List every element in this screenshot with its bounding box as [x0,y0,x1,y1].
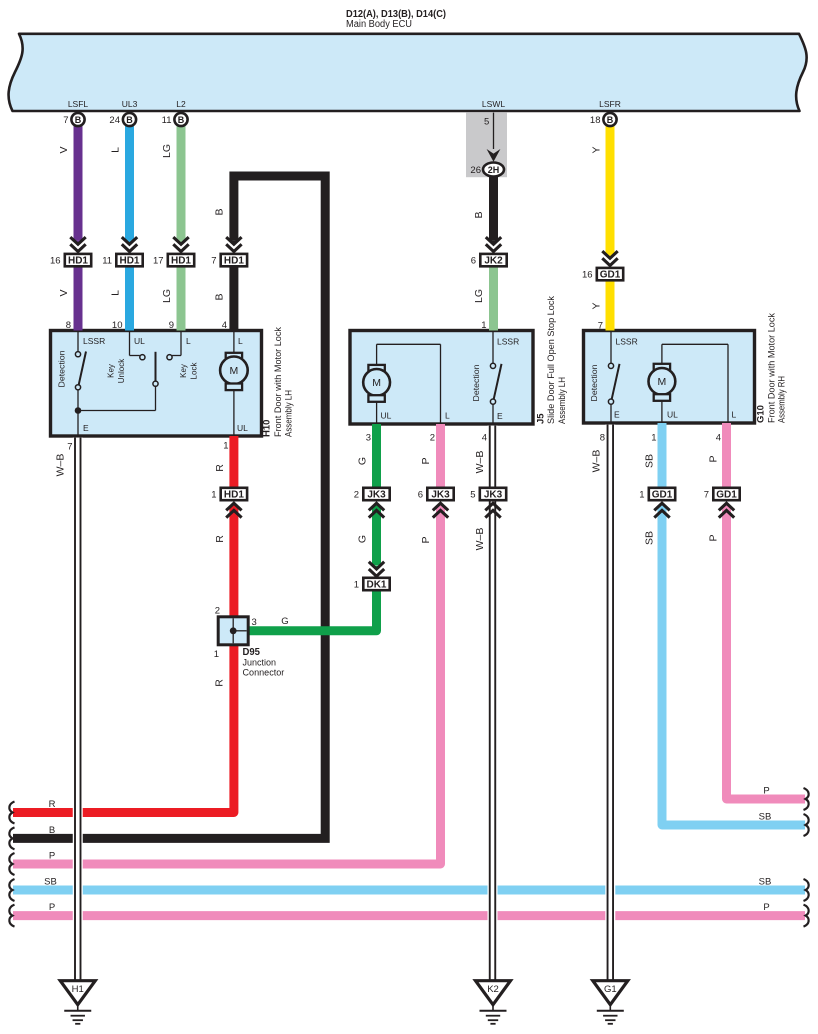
svg-text:7: 7 [63,115,68,126]
ground H1 [60,981,95,1005]
connector HD1 pin11 [116,254,142,266]
svg-text:11: 11 [162,115,172,126]
pin 24 (B) of D12 [123,113,136,126]
svg-text:HD1: HD1 [171,256,191,267]
svg-text:Slide Door Full Open Stop Lock: Slide Door Full Open Stop Lock [546,296,556,424]
svg-text:Assembly LH: Assembly LH [284,390,294,437]
cut mark P right [804,788,809,810]
svg-text:2: 2 [354,489,359,500]
svg-text:7: 7 [211,256,216,267]
svg-text:R: R [214,535,226,543]
module J5 box [350,331,533,425]
arrow into GD1 pin7 [719,503,734,510]
G10 motor M [661,344,663,364]
svg-text:GD1: GD1 [652,490,673,501]
svg-text:W–B: W–B [591,450,603,473]
wire L HD1 to H10 pin10 [125,266,134,330]
LSWL pin 5 lead [493,113,495,149]
svg-text:B: B [473,211,485,218]
svg-text:B: B [214,293,226,300]
svg-text:Detection: Detection [58,351,67,388]
connector DK1 pin1 [363,578,389,590]
svg-text:7: 7 [598,321,603,332]
cut mark SB left [9,879,14,901]
svg-text:JK3: JK3 [367,490,386,501]
svg-text:Key: Key [179,364,188,378]
svg-text:P: P [708,455,720,462]
svg-text:M: M [230,365,239,377]
svg-text:5: 5 [484,117,489,128]
svg-text:UL: UL [381,411,392,421]
svg-text:9: 9 [169,320,174,331]
connector 2H pin26 [483,163,504,177]
cut mark P bus right [804,905,809,927]
svg-text:R: R [49,799,56,810]
svg-text:SB: SB [759,877,772,888]
svg-text:P: P [708,534,720,541]
wire B 2H to JK2 [489,177,498,241]
svg-text:LG: LG [161,289,173,303]
svg-text:JK2: JK2 [484,256,503,267]
arrow into JK3 pin6 [433,503,448,510]
H10 wire dot to E [77,411,79,437]
svg-text:17: 17 [153,256,164,267]
svg-text:P: P [420,457,432,464]
J5 motor top link [377,343,441,345]
svg-text:L: L [186,336,191,346]
svg-text:G: G [281,616,288,627]
wire Y LSFR to GD1 [606,126,615,255]
G10 motor top link [662,343,728,345]
svg-text:L: L [238,336,243,346]
svg-text:SB: SB [644,531,656,545]
svg-text:10: 10 [112,320,123,331]
svg-text:Assembly RH: Assembly RH [777,376,787,423]
svg-text:GD1: GD1 [600,270,621,281]
svg-text:HD1: HD1 [224,490,244,501]
svg-text:P: P [49,902,55,913]
pin 11 (B) of D12 [174,113,187,126]
svg-text:L: L [110,147,122,153]
J5 motor M [376,344,378,365]
connector HD1 pin17 [168,254,194,266]
wire W-B G10 pinE to ground G1 [605,425,615,981]
H10 detection switch [77,332,79,352]
J5 motor to UL pin [376,402,378,424]
svg-text:G: G [357,535,369,543]
pin 7 (B) of D12 [71,113,84,126]
svg-text:7: 7 [704,489,709,500]
svg-text:Y: Y [591,302,603,309]
H10 motor M [233,332,235,353]
arrow into JK2 pin6 [486,237,501,244]
svg-text:P: P [420,536,432,543]
J5 detection switch [492,332,494,363]
svg-text:8: 8 [66,320,71,331]
gray shaded region at LSWL [466,112,507,177]
svg-text:Lock: Lock [190,362,199,380]
svg-text:UL3: UL3 [122,99,138,109]
svg-text:B: B [49,825,55,836]
svg-text:Front Door with Motor Lock: Front Door with Motor Lock [273,327,283,437]
svg-text:1: 1 [639,489,644,500]
svg-text:1: 1 [354,579,359,590]
svg-text:16: 16 [582,270,593,281]
ground K2 [476,981,511,1005]
svg-text:W–B: W–B [55,454,67,477]
svg-text:6: 6 [418,489,423,500]
svg-text:1: 1 [223,441,228,452]
wire B loop from HD1 pin7 [13,176,325,838]
H10 junction dot [75,407,82,414]
svg-text:8: 8 [600,433,605,444]
svg-text:P: P [763,786,769,797]
cut mark SB right [804,814,809,836]
wire LG HD1 to H10 pin9 [177,266,186,330]
svg-text:GD1: GD1 [716,490,737,501]
connector HD1 pin7 [221,254,247,266]
svg-text:B: B [126,115,133,125]
svg-text:Main Body ECU: Main Body ECU [346,19,412,30]
svg-text:Key: Key [107,364,116,378]
cut mark SB bus right [804,879,809,901]
wire W-B H10 pinE to ground H1 [73,438,83,981]
svg-text:Connector: Connector [243,668,285,678]
H10 motor to UL pin [233,390,235,436]
arrow into HD1 pin16 [70,237,85,244]
svg-text:W–B: W–B [474,451,486,474]
wire G J5 pin3 to D95 [372,424,381,487]
svg-text:B: B [75,115,82,125]
H10 common link [78,410,156,412]
wire LG JK2 to J5 pin1 [489,266,498,330]
junction connector D95 [218,617,248,645]
svg-text:16: 16 [50,256,61,267]
svg-text:4: 4 [482,433,487,444]
connector GD1 pin7 [713,488,739,500]
G10 detection switch [610,332,612,363]
svg-text:Detection: Detection [472,365,481,402]
svg-text:M: M [658,376,667,388]
svg-text:L: L [110,290,122,296]
wire R H10 pin1 down and left [229,436,238,487]
svg-text:G: G [357,457,369,465]
cut mark R left [9,802,14,824]
svg-text:R: R [214,464,226,472]
connector GD1 pin16 [597,268,623,280]
svg-text:Assembly LH: Assembly LH [557,377,567,424]
wire B HD1 to H10 pin4 [229,266,238,330]
svg-text:V: V [58,146,70,153]
connector GD1 pin1 [649,488,675,500]
svg-text:V: V [58,289,70,296]
svg-text:7: 7 [67,442,72,453]
svg-text:HD1: HD1 [224,256,244,267]
svg-text:H10: H10 [262,420,273,437]
arrow into JK3 pin5 [485,503,500,510]
module H10 box [51,331,262,437]
svg-text:Unlock: Unlock [117,358,126,383]
svg-text:26: 26 [470,165,481,176]
svg-text:2: 2 [430,433,435,444]
svg-text:24: 24 [109,115,120,126]
cut mark B left [9,827,14,849]
wire P J5 pin2 down and left [436,424,445,487]
svg-text:5: 5 [470,489,475,500]
svg-text:Detection: Detection [590,365,599,402]
arrow into HD1 pin11 [122,237,137,244]
connector JK3 pin6 [427,488,453,500]
svg-text:HD1: HD1 [119,256,139,267]
arrow into HD1 pin1 [226,503,241,510]
svg-text:L2: L2 [176,99,186,109]
H10 key common blade [153,381,158,386]
wire V LSFL to HD1 [74,126,83,241]
svg-text:JK3: JK3 [484,490,503,501]
svg-text:4: 4 [222,320,227,331]
svg-text:B: B [607,115,614,125]
svg-text:B: B [214,208,226,215]
svg-text:UL: UL [237,423,248,433]
svg-text:M: M [372,377,381,389]
svg-text:DK1: DK1 [366,580,386,591]
arrow into GD1 pin16 [602,251,617,258]
wire SB horizontal bus [13,886,805,895]
svg-text:1: 1 [651,433,656,444]
svg-text:2: 2 [215,606,220,617]
connector HD1 pin16 [65,254,91,266]
arrow into DK1 pin1 [369,562,384,569]
svg-text:6: 6 [471,256,476,267]
svg-text:LG: LG [161,144,173,158]
svg-text:D95: D95 [243,647,261,658]
ground G1 [593,981,628,1005]
svg-text:B: B [178,115,185,125]
svg-text:LSSR: LSSR [497,337,519,347]
wire P G10 pin4 down and right [722,423,731,487]
svg-text:LSFR: LSFR [599,99,621,109]
svg-text:LG: LG [473,289,485,303]
connector JK3 pin2 [363,488,389,500]
svg-text:P: P [763,902,769,913]
svg-text:SB: SB [644,454,656,468]
wire Y GD1 to G10 pin7 [606,280,615,330]
svg-text:1: 1 [481,320,486,331]
svg-text:H1: H1 [72,984,84,995]
wire P horizontal bus [13,911,805,920]
wire W-B J5 pinE to ground K2 [488,426,498,981]
ECU band (Main Body ECU) [9,34,807,111]
svg-text:L: L [732,410,737,420]
connector JK3 pin5 [480,488,506,500]
svg-text:LSFL: LSFL [68,99,89,109]
wire L UL3 to HD1 [125,126,134,241]
arrow into JK3 pin2 [369,503,384,510]
svg-text:Front Door with Motor Lock: Front Door with Motor Lock [767,313,777,423]
svg-text:1: 1 [214,649,219,660]
arrow into HD1 pin7 [226,237,241,244]
svg-text:18: 18 [590,115,601,126]
svg-text:2H: 2H [488,165,500,175]
H10 key unlock contact [129,332,131,356]
G10 motor to UL pin [661,401,663,423]
svg-text:Junction: Junction [243,658,277,668]
svg-text:4: 4 [716,433,721,444]
wire LG L2 to HD1 [177,126,186,241]
svg-text:E: E [83,423,89,433]
svg-text:K2: K2 [487,984,499,995]
svg-text:UL: UL [134,336,145,346]
wire V HD1 to H10 pin8 [74,266,83,330]
svg-text:3: 3 [252,617,257,628]
svg-text:E: E [497,411,503,421]
arrow into GD1 pin1 [654,503,669,510]
cut mark P left [9,853,14,875]
svg-text:JK3: JK3 [431,490,450,501]
cut mark P2 left [9,905,14,927]
module G10 box [584,331,755,424]
svg-text:UL: UL [667,410,678,420]
svg-text:LSWL: LSWL [482,99,505,109]
svg-text:L: L [445,411,450,421]
arrow into HD1 pin17 [173,237,188,244]
svg-text:LSSR: LSSR [83,336,105,346]
connector HD1 pin1 [221,488,247,500]
svg-text:P: P [49,851,55,862]
svg-text:G10: G10 [756,405,767,423]
svg-text:11: 11 [102,256,112,267]
svg-text:SB: SB [44,877,57,888]
svg-text:G1: G1 [604,984,617,995]
svg-text:W–B: W–B [474,528,486,551]
svg-text:SB: SB [759,812,772,823]
LSWL arrowhead [487,149,501,162]
svg-text:1: 1 [211,489,216,500]
svg-text:E: E [614,410,620,420]
svg-text:HD1: HD1 [68,256,88,267]
pin 18 (B) of D12 [603,113,616,126]
svg-text:3: 3 [366,433,371,444]
wire SB G10 pin1 down and right [658,423,667,487]
connector JK2 pin6 [480,254,506,266]
svg-text:LSSR: LSSR [616,337,638,347]
svg-text:R: R [214,679,226,687]
H10 key lock contact [180,332,182,356]
svg-text:Y: Y [591,146,603,153]
